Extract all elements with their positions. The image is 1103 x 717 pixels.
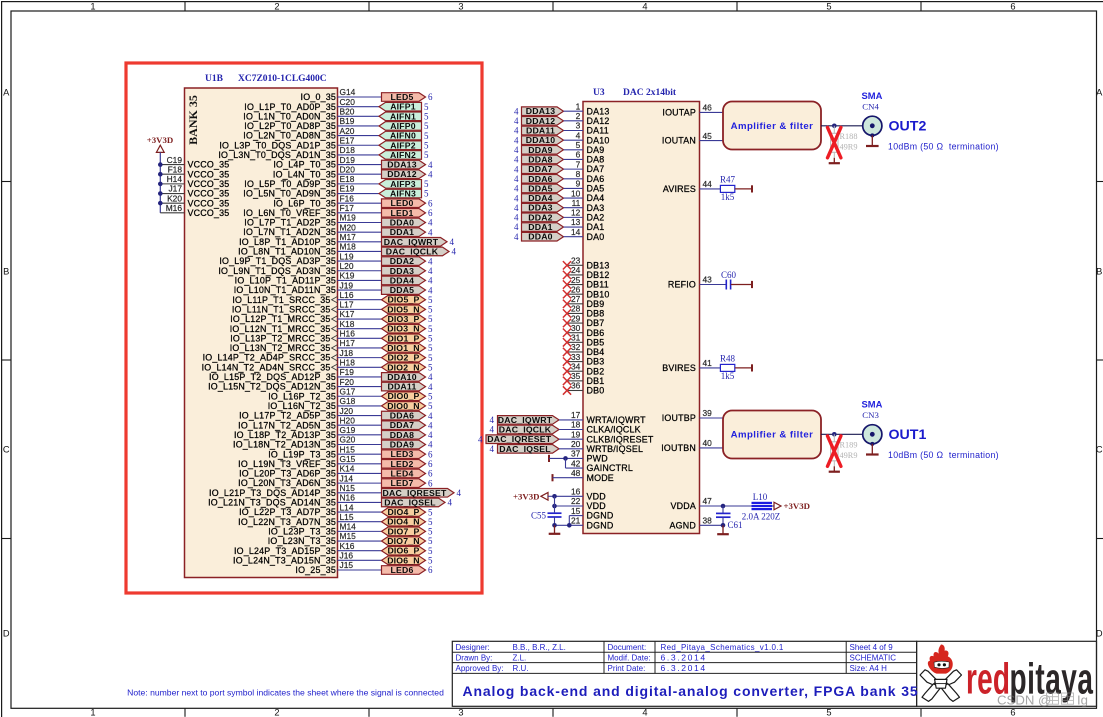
svg-text:CLKA/IQCLK: CLKA/IQCLK [587, 425, 641, 435]
svg-text:R47: R47 [720, 175, 736, 185]
svg-text:DDA10: DDA10 [387, 372, 417, 382]
port DDA12 [382, 169, 426, 179]
svg-text:WRTA/IQWRT: WRTA/IQWRT [587, 415, 647, 425]
svg-text:IO_25_35: IO_25_35 [295, 565, 336, 575]
svg-text:5: 5 [428, 507, 433, 517]
svg-text:13: 13 [571, 217, 581, 227]
svg-text:VDDA: VDDA [671, 501, 696, 511]
svg-text:14: 14 [571, 227, 581, 237]
U1B pin C19 VCCO_35 [158, 155, 229, 170]
svg-text:M17: M17 [340, 232, 357, 242]
svg-text:F19: F19 [340, 367, 355, 377]
svg-text:B.B., B.R., Z.L.: B.B., B.R., Z.L. [513, 643, 566, 652]
svg-text:1: 1 [90, 2, 95, 12]
svg-text:DB3: DB3 [587, 357, 605, 367]
svg-text:IO_L10P_T1_AD11P_35: IO_L10P_T1_AD11P_35 [235, 276, 336, 286]
svg-text:IO_L16N_T2_35: IO_L16N_T2_35 [268, 401, 336, 411]
U3 pin 32 DB4 (no connect) [563, 342, 604, 357]
svg-text:DA2: DA2 [587, 212, 605, 222]
svg-text:6: 6 [428, 198, 433, 208]
Red Pitaya logo [920, 644, 1093, 707]
port DDA0 [382, 217, 426, 227]
svg-text:LED1: LED1 [390, 208, 413, 218]
svg-text:17: 17 [571, 410, 581, 420]
svg-text:DDA5: DDA5 [528, 183, 552, 193]
port DDA7 [382, 420, 426, 430]
svg-text:IOUTBP: IOUTBP [662, 413, 696, 423]
svg-text:DDA8: DDA8 [390, 430, 414, 440]
svg-text:DDA11: DDA11 [387, 382, 416, 392]
svg-text:IO_L14N_T2_AD4N_SRCC_35: IO_L14N_T2_AD4N_SRCC_35 [202, 362, 331, 372]
svg-text:LED4: LED4 [390, 468, 413, 478]
svg-text:DDA2: DDA2 [528, 212, 552, 222]
U3 pin 46 IOUTAP [662, 103, 712, 118]
svg-text:IOUTAN: IOUTAN [662, 136, 696, 146]
svg-text:N15: N15 [340, 483, 356, 493]
svg-text:37: 37 [571, 449, 581, 459]
svg-text:IO_L18P_T2_AD13P_35: IO_L18P_T2_AD13P_35 [234, 430, 336, 440]
svg-text:CLKB/IQRESET: CLKB/IQRESET [587, 434, 654, 444]
svg-text:5: 5 [424, 140, 429, 150]
U3 pin 47 VDDA [671, 496, 713, 511]
svg-text:6: 6 [576, 150, 581, 160]
U3 pin 38 AGND [670, 516, 713, 531]
svg-text:5: 5 [428, 314, 433, 324]
svg-text:C: C [3, 445, 10, 455]
U1B pin H14 VCCO_35 [158, 174, 229, 189]
svg-text:J15: J15 [340, 560, 354, 570]
svg-text:5: 5 [428, 324, 433, 334]
U1B pin K16 IO_L24P_T3_AD15P_35 [234, 541, 382, 556]
svg-text:4: 4 [642, 2, 647, 12]
svg-text:C61: C61 [728, 520, 743, 530]
svg-text:IO_L21P_T3_DQS_AD14P_35: IO_L21P_T3_DQS_AD14P_35 [209, 488, 336, 498]
svg-text:MODE: MODE [587, 473, 614, 483]
svg-text:5: 5 [826, 2, 831, 12]
svg-text:4: 4 [452, 247, 457, 257]
node VDDA junction [721, 504, 726, 509]
svg-text:DIO1_N: DIO1_N [387, 343, 420, 353]
svg-text:5: 5 [428, 527, 433, 537]
U1B pin F18 VCCO_35 [158, 164, 229, 179]
svg-text:VCCO_35: VCCO_35 [188, 198, 230, 208]
svg-text:16: 16 [571, 487, 581, 497]
svg-text:IO_L15N_T2_DQS_AD12N_35: IO_L15N_T2_DQS_AD12N_35 [208, 382, 336, 392]
svg-text:4: 4 [428, 285, 433, 295]
svg-text:10dBm (50 Ω termination): 10dBm (50 Ω termination) [888, 142, 999, 152]
U3 pin 33 DB3 (no connect) [563, 352, 604, 367]
svg-text:DDA7: DDA7 [528, 164, 552, 174]
svg-text:43: 43 [703, 275, 713, 285]
svg-text:B: B [1096, 267, 1102, 277]
svg-text:E17: E17 [340, 135, 355, 145]
ground (C55/DGND) [554, 525, 556, 534]
port AIFP1 [379, 102, 422, 112]
svg-text:4: 4 [457, 488, 462, 498]
port AIFN1 [379, 111, 422, 121]
svg-text:35: 35 [571, 371, 581, 381]
svg-text:DDA13: DDA13 [387, 160, 417, 170]
svg-text:DAC_IQCLK: DAC_IQCLK [499, 425, 552, 435]
block U-amp Amplifier &amp; filter (OUT2) [723, 102, 821, 150]
U3 pin 31 DB5 (no connect) [563, 333, 604, 348]
svg-text:DGND: DGND [587, 520, 614, 530]
U3 pin 15 DGND [569, 506, 613, 526]
ground (AGND/C61) [722, 525, 724, 534]
svg-text:IO_L5N_T0_AD9N_35: IO_L5N_T0_AD9N_35 [243, 189, 336, 199]
svg-text:DB0: DB0 [587, 386, 605, 396]
svg-text:3: 3 [458, 2, 463, 12]
svg-text:5: 5 [428, 546, 433, 556]
DAC U3 body [583, 102, 700, 534]
svg-text:DDA0: DDA0 [390, 217, 414, 227]
svg-text:4: 4 [450, 237, 455, 247]
svg-text:5: 5 [428, 353, 433, 363]
resistor R48 1k5 [700, 354, 753, 381]
svg-text:G14: G14 [340, 87, 356, 97]
connector CN4 SMA OUT2 [862, 90, 883, 137]
svg-text:IO_L23N_T3_35: IO_L23N_T3_35 [268, 536, 336, 546]
svg-text:G18: G18 [340, 396, 356, 406]
svg-text:R.U.: R.U. [513, 664, 529, 673]
U1B pin L15 IO_L22N_T3_AD7N_35 [238, 512, 381, 527]
svg-text:DAC_IQCLK: DAC_IQCLK [386, 246, 439, 256]
svg-text:4: 4 [514, 126, 519, 136]
svg-text:J20: J20 [340, 406, 354, 416]
component U1B FPGA BANK 35 body [185, 88, 338, 578]
U3 pin 45 IOUTAN [662, 131, 712, 146]
U3 pin 11 DA3 + port DDA3 [514, 198, 604, 213]
svg-text:2.0A 220Z: 2.0A 220Z [742, 511, 781, 521]
svg-text:IO_L15P_T2_DQS_AD12P_35: IO_L15P_T2_DQS_AD12P_35 [209, 372, 336, 382]
svg-text:K17: K17 [340, 309, 355, 319]
svg-text:6: 6 [428, 469, 433, 479]
svg-text:28: 28 [571, 304, 581, 314]
port DDA8 [382, 430, 426, 440]
port DIO1_P [382, 333, 426, 343]
port DIO2_P [382, 353, 426, 363]
svg-text:DIO2_N: DIO2_N [387, 362, 420, 372]
svg-text:6: 6 [1010, 2, 1015, 12]
svg-text:5: 5 [428, 556, 433, 566]
svg-text:DGND: DGND [587, 511, 614, 521]
port AIFN0 [379, 131, 422, 141]
svg-text:H15: H15 [340, 444, 356, 454]
U1B pin N15 IO_L21P_T3_DQS_AD14P_35 [209, 483, 381, 498]
svg-text:LED2: LED2 [390, 459, 413, 469]
svg-text:IO_L11N_T1_SRCC_35: IO_L11N_T1_SRCC_35 [232, 304, 331, 314]
svg-text:38: 38 [703, 516, 713, 526]
svg-text:M16: M16 [166, 203, 183, 213]
svg-text:DDA3: DDA3 [390, 266, 414, 276]
svg-text:IO_L12N_T1_MRCC_35: IO_L12N_T1_MRCC_35 [230, 324, 331, 334]
svg-text:BVIRES: BVIRES [662, 363, 696, 373]
svg-text:DIO5_N: DIO5_N [387, 304, 420, 314]
svg-text:Approved By:: Approved By: [456, 664, 504, 673]
U3 pin 41 BVIRES [662, 358, 712, 373]
U3 pin 1 DA13 + port DDA13 [514, 101, 610, 116]
svg-text:M14: M14 [340, 522, 357, 532]
svg-text:IO_L8N_T1_AD10N_35: IO_L8N_T1_AD10N_35 [238, 247, 336, 257]
svg-text:5: 5 [428, 401, 433, 411]
U3 pin 17 WRTA/IQWRT + port DAC_IQWRT [490, 410, 647, 425]
svg-text:M19: M19 [340, 213, 357, 223]
svg-text:DB11: DB11 [587, 280, 609, 290]
svg-text:B: B [3, 267, 9, 277]
svg-text:E18: E18 [340, 174, 355, 184]
svg-text:30: 30 [571, 323, 581, 333]
connector CN3 SMA OUT1 [862, 399, 883, 446]
U1B pin F17 IO_L6N_T0_VREF_35 [243, 203, 381, 218]
svg-text:+3V3D: +3V3D [513, 491, 540, 501]
port LED2 [382, 459, 426, 469]
svg-text:39: 39 [703, 408, 713, 418]
svg-text:M15: M15 [340, 531, 357, 541]
svg-text:5: 5 [428, 362, 433, 372]
svg-text:D18: D18 [340, 145, 356, 155]
ground (under R188) [833, 158, 835, 163]
U1B pin L17 IO_L11N_T1_SRCC_35 [232, 300, 382, 315]
svg-text:DDA11: DDA11 [526, 126, 555, 136]
svg-text:WRTB/IQSEL: WRTB/IQSEL [587, 444, 644, 454]
U3 pin 21 DGND [552, 516, 613, 531]
svg-text:24: 24 [571, 265, 581, 275]
svg-text:H17: H17 [340, 338, 356, 348]
U1B pin K14 IO_L20P_T3_AD6P_35 [239, 464, 381, 479]
svg-text:9: 9 [576, 179, 581, 189]
svg-text:41: 41 [703, 358, 713, 368]
port LED3 [382, 449, 426, 459]
U3 pin 43 REFIO [668, 275, 712, 290]
U3 pin 22 VDD [552, 496, 606, 511]
block U-amp Amplifier &amp; filter (OUT1) [723, 411, 821, 459]
U1B pin D19 IO_L4P_T0_35 [273, 155, 381, 170]
svg-text:LED0: LED0 [390, 198, 413, 208]
U3 pin 36 DB0 (no connect) [563, 381, 604, 396]
svg-text:REFIO: REFIO [668, 280, 696, 290]
node junction OUT2 [832, 124, 837, 129]
svg-text:CN3: CN3 [862, 410, 879, 420]
svg-text:4: 4 [428, 160, 433, 170]
svg-text:DA6: DA6 [587, 174, 605, 184]
port DDA2 [382, 256, 426, 266]
svg-text:DDA5: DDA5 [390, 285, 414, 295]
svg-text:IO_L14P_T2_AD4P_SRCC_35: IO_L14P_T2_AD4P_SRCC_35 [203, 353, 331, 363]
svg-text:DA7: DA7 [587, 164, 605, 174]
U1B pin H15 IO_L19P_T3_35 [268, 444, 381, 459]
svg-text:VCCO_35: VCCO_35 [188, 169, 230, 179]
svg-text:IOUTAP: IOUTAP [662, 108, 696, 118]
svg-text:AIFP3: AIFP3 [390, 179, 416, 189]
svg-text:DA0: DA0 [587, 232, 605, 242]
svg-text:42: 42 [571, 458, 581, 468]
U3 pin 5 DA9 + port DDA9 [514, 140, 604, 155]
svg-text:K14: K14 [340, 464, 355, 474]
node OUT2 label [888, 119, 999, 152]
svg-text:IO_L22P_T3_AD7P_35: IO_L22P_T3_AD7P_35 [239, 507, 336, 517]
svg-text:DDA9: DDA9 [528, 145, 552, 155]
port DIO7_P [382, 526, 426, 536]
svg-text:DDA12: DDA12 [387, 169, 417, 179]
U1B pin M14 IO_L23P_T3_35 [268, 522, 381, 537]
svg-text:4: 4 [428, 169, 433, 179]
svg-text:Print Date:: Print Date: [608, 664, 646, 673]
wire VDD vertical [554, 496, 556, 512]
U3 pin 23 DB13 (no connect) [563, 256, 610, 271]
svg-text:DDA6: DDA6 [528, 174, 552, 184]
svg-text:IO_L1N_T0_AD0N_35: IO_L1N_T0_AD0N_35 [243, 111, 336, 121]
svg-text:5: 5 [428, 343, 433, 353]
U1B pin K18 IO_L12N_T1_MRCC_35 [230, 319, 382, 334]
svg-text:DB7: DB7 [587, 318, 605, 328]
U1B pin F16 IO_L6P_T0_35 [273, 193, 381, 208]
svg-text:27: 27 [571, 294, 581, 304]
port AIFP0 [379, 121, 422, 131]
svg-text:6: 6 [428, 565, 433, 575]
svg-text:2: 2 [576, 111, 581, 121]
svg-text:U1B: U1B [205, 74, 224, 84]
U3 pin 37 PWD + pin 42 GAINCTRL tie [549, 449, 633, 474]
port AIFN3 [379, 189, 422, 199]
U1B pin L19 IO_L9P_T1_DQS_AD3P_35 [219, 251, 381, 266]
svg-text:Z.L.: Z.L. [513, 653, 527, 662]
port AIFN2 [379, 150, 422, 160]
svg-text:H20: H20 [340, 415, 356, 425]
svg-text:4: 4 [514, 155, 519, 165]
svg-text:L16: L16 [340, 290, 354, 300]
svg-text:6: 6 [428, 92, 433, 102]
svg-text:G15: G15 [340, 454, 356, 464]
svg-text:VCCO_35: VCCO_35 [188, 208, 230, 218]
svg-text:DB9: DB9 [587, 299, 605, 309]
svg-text:4: 4 [428, 218, 433, 228]
svg-text:XC7Z010-1CLG400C: XC7Z010-1CLG400C [238, 74, 327, 84]
U1B pin M16 VCCO_35 [160, 203, 229, 218]
U1B pin F20 IO_L15N_T2_DQS_AD12N_35 [208, 377, 381, 392]
svg-text:R188: R188 [840, 132, 858, 141]
svg-text:DAC_IQWRT: DAC_IQWRT [498, 415, 553, 425]
svg-text:DB8: DB8 [587, 309, 605, 319]
svg-text:DB10: DB10 [587, 289, 610, 299]
svg-text:Amplifier & filter: Amplifier & filter [731, 121, 814, 132]
svg-text:32: 32 [571, 342, 581, 352]
svg-text:49R9: 49R9 [840, 451, 858, 460]
U1B pin J16 IO_L24N_T3_AD15N_35 [233, 551, 381, 566]
svg-text:DAC_IQRESET: DAC_IQRESET [383, 488, 447, 498]
port DIO4_P [382, 507, 426, 517]
svg-text:DDA1: DDA1 [390, 227, 414, 237]
svg-text:IO_L3P_T0_DQS_AD1P_35: IO_L3P_T0_DQS_AD1P_35 [219, 140, 336, 150]
U1B pin K17 IO_L12P_T1_MRCC_35 [230, 309, 381, 324]
U3 pin 2 DA12 + port DDA12 [514, 111, 610, 126]
svg-text:26: 26 [571, 284, 581, 294]
svg-text:G17: G17 [340, 386, 356, 396]
U1B pin A20 IO_L2N_T0_AD8N_35 [243, 126, 379, 141]
port DDA4 [382, 275, 426, 285]
svg-text:IO_L19P_T3_35: IO_L19P_T3_35 [268, 449, 336, 459]
U1B pin K19 IO_L10P_T1_AD11P_35 [235, 271, 382, 286]
wire IOUTAP [700, 111, 724, 113]
svg-text:IO_L10N_T1_AD11N_35: IO_L10N_T1_AD11N_35 [234, 285, 336, 295]
svg-text:5: 5 [428, 295, 433, 305]
svg-text:5: 5 [424, 112, 429, 122]
svg-text:IO_L4N_T0_35: IO_L4N_T0_35 [273, 169, 336, 179]
svg-text:6.3.2014: 6.3.2014 [661, 663, 707, 673]
svg-text:DIO0_N: DIO0_N [387, 401, 420, 411]
svg-text:BANK 35: BANK 35 [186, 95, 200, 145]
svg-text:21: 21 [571, 516, 581, 526]
svg-text:+3V3D: +3V3D [784, 501, 811, 511]
svg-text:D: D [3, 629, 10, 639]
svg-text:K16: K16 [340, 541, 355, 551]
port DIO2_N [382, 362, 426, 372]
svg-text:C19: C19 [167, 155, 183, 165]
svg-text:4: 4 [514, 193, 519, 203]
svg-text:DA11: DA11 [587, 126, 609, 136]
svg-text:AVIRES: AVIRES [663, 184, 696, 194]
U1B pin E19 IO_L5N_T0_AD9N_35 [243, 184, 379, 199]
svg-text:DDA4: DDA4 [390, 275, 414, 285]
port DDA6 [382, 411, 426, 421]
ground (CN3 shield) [871, 444, 873, 455]
svg-text:F17: F17 [340, 203, 355, 213]
svg-text:DB12: DB12 [587, 270, 610, 280]
svg-text:U3: U3 [593, 88, 605, 98]
U1B pin L14 IO_L22P_T3_AD7P_35 [239, 502, 381, 517]
svg-text:DA4: DA4 [587, 193, 605, 203]
svg-text:B20: B20 [340, 107, 355, 117]
svg-text:4: 4 [514, 213, 519, 223]
svg-text:DA8: DA8 [587, 155, 605, 165]
U1B pin M20 IO_L7N_T1_AD2N_35 [243, 222, 381, 237]
svg-text:DDA10: DDA10 [526, 135, 556, 145]
port LED1 [382, 208, 426, 218]
svg-text:4: 4 [576, 130, 581, 140]
U1B pin J19 IO_L10N_T1_AD11N_35 [234, 280, 382, 295]
svg-text:4: 4 [514, 232, 519, 242]
svg-text:E19: E19 [340, 184, 355, 194]
svg-text:4: 4 [490, 425, 495, 435]
svg-text:L10: L10 [753, 492, 768, 502]
svg-text:48: 48 [571, 468, 581, 478]
resistor R47 1k5 [700, 175, 753, 202]
svg-text:Amplifier & filter: Amplifier & filter [731, 430, 814, 441]
svg-text:4: 4 [428, 430, 433, 440]
svg-text:4: 4 [428, 276, 433, 286]
svg-text:Sheet 4 of 9: Sheet 4 of 9 [850, 643, 894, 652]
U3 pin 16 VDD [552, 487, 606, 502]
svg-text:5: 5 [428, 517, 433, 527]
svg-text:49R9: 49R9 [840, 142, 858, 151]
svg-text:K19: K19 [340, 271, 355, 281]
port LED5 [382, 92, 426, 102]
svg-text:5: 5 [826, 708, 831, 717]
svg-text:AIFP2: AIFP2 [390, 140, 416, 150]
resistor R188 49R9 (not fitted, crossed out) [828, 126, 858, 158]
svg-text:1: 1 [90, 708, 95, 717]
svg-text:DIO6_N: DIO6_N [387, 555, 420, 565]
svg-text:4: 4 [428, 256, 433, 266]
svg-text:CN4: CN4 [862, 101, 879, 111]
inductor L10 2.0A 220Z [742, 492, 781, 521]
svg-text:IO_L13P_T2_MRCC_35: IO_L13P_T2_MRCC_35 [230, 333, 330, 343]
U1B pin M15 IO_L23N_T3_35 [268, 531, 382, 546]
svg-text:IO_L7P_T1_AD2P_35: IO_L7P_T1_AD2P_35 [244, 218, 336, 228]
svg-text:VCCO_35: VCCO_35 [188, 179, 230, 189]
svg-text:1k5: 1k5 [721, 192, 735, 202]
svg-text:29: 29 [571, 313, 581, 323]
svg-text:AIFN3: AIFN3 [390, 189, 416, 199]
